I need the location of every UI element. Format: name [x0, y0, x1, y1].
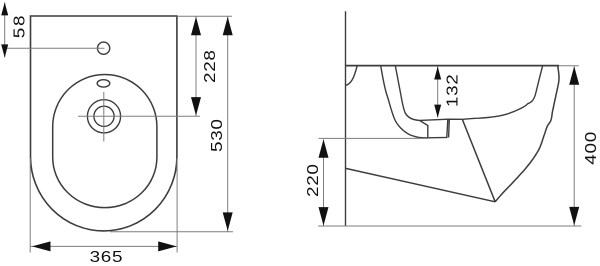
dimension 228 top arrow: [191, 17, 201, 36]
right extension line: [176, 158, 178, 253]
drain inner circle: [94, 106, 114, 126]
svg-text:58: 58: [10, 14, 28, 39]
dimension 132 top arrow: [434, 67, 441, 80]
dimension 400 line: [573, 67, 575, 226]
dimension 365 right arrow: [158, 241, 177, 251]
svg-text:530: 530: [207, 118, 225, 152]
bidet body outline (top view): [31, 16, 177, 231]
dimension 228 line: [195, 16, 197, 116]
dimension 365 left arrow: [32, 241, 51, 251]
bowl front inner surface: [463, 66, 543, 120]
bowl back inner surface: [395, 66, 419, 121]
drain fitting top: [420, 119, 463, 120]
dimension 530 bottom arrow: [223, 212, 233, 231]
svg-text:228: 228: [201, 49, 219, 83]
body front underside edge: [463, 120, 496, 202]
bottom extension line right view: [318, 225, 582, 227]
faucet hole leader line: [5, 47, 105, 49]
dimension 58 bottom arrow: [1, 44, 8, 57]
faucet hole: [98, 42, 110, 54]
top extension line: [177, 15, 232, 17]
dimension 58 top arrow: [1, 2, 8, 15]
body bottom edge: [346, 168, 495, 201]
dimension 365 line: [31, 245, 177, 247]
bottom extension line: [110, 231, 233, 233]
top rim edge: [346, 65, 560, 67]
rim back hook: [345, 66, 357, 86]
overflow ellipse: [97, 80, 110, 87]
bowl back outer surface: [381, 66, 428, 138]
dimension 132 bottom arrow: [434, 105, 441, 118]
drain centerline to 228 dimension: [78, 115, 200, 117]
dimension 228 bottom arrow: [191, 97, 201, 116]
drain crosshair vertical: [103, 92, 105, 142]
dimension 530 line: [227, 16, 229, 231]
svg-text:132: 132: [443, 74, 461, 108]
dimension 58 line: [4, 2, 6, 57]
top right extension line: [559, 65, 579, 67]
dimension 132 line: [437, 67, 439, 118]
dimension 220 line: [323, 140, 325, 226]
svg-text:365: 365: [90, 247, 124, 265]
dimension 530 top arrow: [223, 17, 233, 36]
dimension 220 extension line: [319, 137, 428, 139]
body back outer curve: [495, 66, 559, 202]
dimension 400 top arrow: [569, 66, 579, 85]
dimension 220 top arrow: [319, 139, 329, 158]
wall line: [345, 11, 347, 226]
svg-text:400: 400: [581, 131, 599, 165]
drain fitting box: [420, 119, 450, 137]
drain outer circle: [87, 100, 120, 133]
left extension line: [29, 158, 31, 253]
dimension 220 bottom arrow: [319, 207, 329, 226]
dimension 400 bottom arrow: [569, 207, 579, 226]
inner bowl rim: [53, 75, 157, 208]
svg-text:220: 220: [303, 163, 321, 197]
